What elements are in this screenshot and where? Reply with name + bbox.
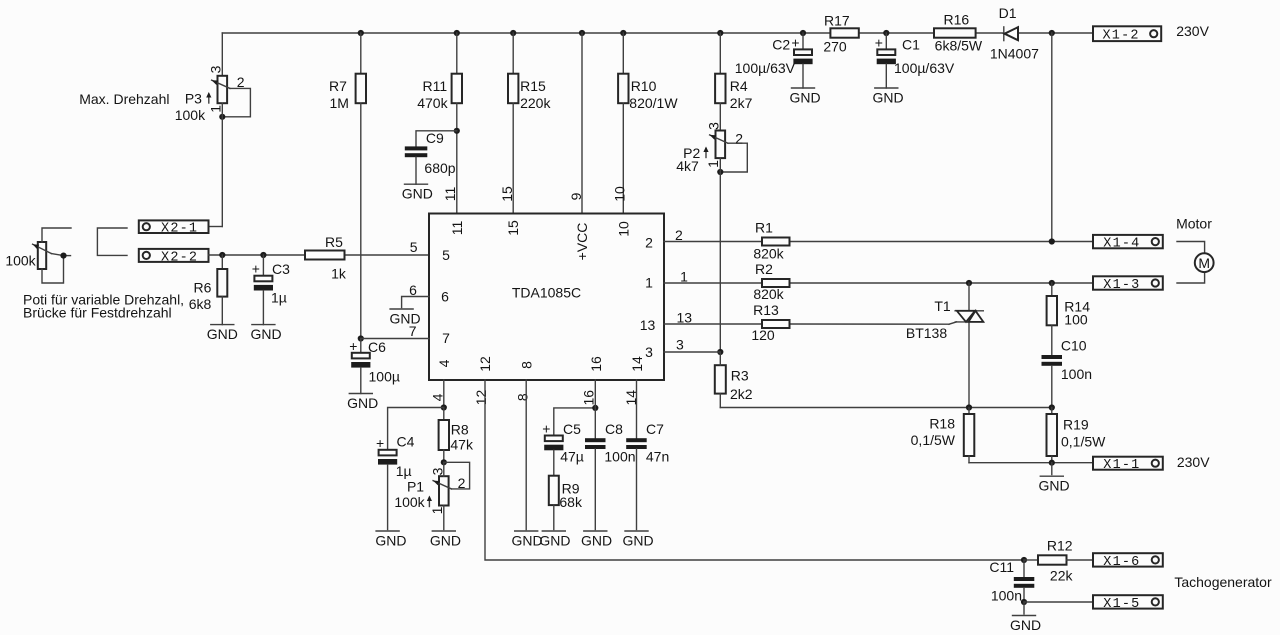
svg-text:100n: 100n [1061,366,1092,382]
svg-text:GND: GND [250,326,281,342]
value 100u/63V (C1) [894,60,955,76]
value 820k (R1) [753,246,784,262]
label P3 pin 2 [237,74,245,90]
value 680p (C9) [424,160,455,176]
value 100k (external poti) [5,253,36,269]
svg-text:TDA1085C: TDA1085C [512,285,581,301]
svg-text:Motor: Motor [1176,216,1212,232]
svg-text:M: M [1198,255,1210,271]
label Motor [1176,216,1212,232]
svg-text:R11: R11 [422,78,447,94]
value 6k8/5W (R16) [935,38,983,54]
resistor R11 [452,33,462,214]
resistor R8 [439,408,449,463]
svg-text:GND: GND [1038,478,1069,494]
capacitor C6 [349,338,370,394]
svg-text:13: 13 [677,309,693,325]
svg-text:X1-3: X1-3 [1103,278,1140,293]
pin 7 label outside [409,323,417,339]
value 47n (C7) [646,449,669,465]
svg-text:R17: R17 [824,13,850,29]
node P3 wiper junction [219,114,225,120]
pin 1 label outside [680,269,688,285]
pin 5 label inside [442,247,450,263]
value BT138 (T1) [906,325,947,341]
svg-text:C6: C6 [368,339,386,355]
value 100k (P3) [175,107,206,123]
svg-text:1µ: 1µ [396,463,412,479]
pin 13 label outside [677,309,693,325]
svg-text:+: + [791,34,799,50]
wire external pot top terminal [42,228,71,242]
svg-text:+: + [376,435,384,451]
svg-text:470k: 470k [417,95,448,111]
value 120 (R13) [751,327,775,343]
svg-text:100k: 100k [5,253,36,269]
svg-text:3: 3 [706,122,722,130]
svg-text:16: 16 [588,356,604,372]
label R2 [755,261,773,277]
label Max. Drehzahl [79,91,169,107]
value 47u (C5) [560,449,584,465]
svg-text:11: 11 [449,221,465,236]
value 220k (R15) [520,95,551,111]
svg-text:+: + [349,338,357,354]
svg-text:100: 100 [1064,312,1088,328]
value 22k (R12) [1050,568,1074,584]
pin 4 label outside [429,393,445,401]
svg-text:Max. Drehzahl: Max. Drehzahl [79,91,169,107]
value 2k2 (R3) [730,386,753,402]
value 68k (R9) [559,494,583,510]
svg-text:12: 12 [477,356,493,372]
op-amp U1 TDA1085C IC body [429,214,664,381]
pin 2 label outside [675,227,683,243]
svg-text:2: 2 [237,74,245,90]
resistor R6 [217,255,227,325]
wire X2-2 to R5 and pin 5 [209,252,430,258]
label R3 [731,368,749,384]
svg-text:P1: P1 [407,479,424,495]
label R12 [1047,537,1073,553]
value 2k7 (R4) [730,95,753,111]
svg-text:R3: R3 [731,368,749,384]
value 1u (C3) [271,290,287,306]
label P1 [407,479,424,495]
svg-text:R19: R19 [1063,417,1089,433]
label R8 [451,422,469,438]
label P3 [185,91,202,107]
wire top supply bus [222,30,1093,36]
ground C6 [347,394,378,412]
pin 7 label inside [442,330,450,346]
svg-text:D1: D1 [999,5,1017,21]
capacitor C9 [405,131,457,184]
wire pin 1 row [664,280,1093,286]
value 1k (R5) [331,265,347,281]
svg-text:+: + [252,261,260,277]
resistor R3 [715,352,726,408]
svg-text:Tachogenerator: Tachogenerator [1174,574,1272,590]
svg-text:68k: 68k [559,494,583,510]
pin 3 label outside [676,337,684,353]
label R1 [755,220,773,236]
wire pin 12 to tachogenerator [485,380,1024,560]
value 0,1/5W (R18) [911,432,956,448]
wire pin 16 junction to C5 [554,405,599,436]
value 1N4007 (D1) [990,45,1039,61]
svg-text:13: 13 [640,317,656,333]
svg-text:100k: 100k [394,494,425,510]
label R7 [329,78,347,94]
svg-text:C3: C3 [272,261,290,277]
svg-text:R10: R10 [631,78,657,94]
svg-text:100n: 100n [604,449,635,465]
svg-text:C1: C1 [902,37,920,53]
node external pot wiper [60,253,66,259]
capacitor C1 [875,33,896,88]
svg-text:16: 16 [581,390,597,406]
label P1 pin 1 [429,506,445,514]
label R16 [943,12,969,28]
resistor R19 [1047,408,1058,463]
capacitor C10 [1042,355,1063,408]
label P3 pin 3 [208,65,224,73]
ground C7 [623,531,654,549]
resistor R10 [618,33,628,214]
svg-text:12: 12 [473,390,489,406]
label C1 [902,37,920,53]
svg-text:R5: R5 [325,234,343,250]
wire pin 8 to ground [525,380,527,530]
resistor R18 [964,408,975,463]
ground C8 [581,531,612,549]
connector X1-4 [1093,235,1163,252]
label C2 [772,37,790,53]
svg-text:X2-2: X2-2 [161,250,198,265]
svg-text:C7: C7 [646,421,664,437]
pin 15 label outside [499,186,515,202]
label C9 [426,130,444,146]
node pin7 junction [358,335,364,341]
resistor R12 [1024,555,1093,564]
svg-text:1: 1 [429,506,445,514]
svg-text:1: 1 [645,275,653,291]
svg-text:+VCC: +VCC [574,223,590,261]
svg-text:0,1/5W: 0,1/5W [911,432,956,448]
svg-text:0,1/5W: 0,1/5W [1061,434,1106,450]
connector X1-6 [1093,553,1163,570]
svg-text:C11: C11 [989,559,1014,575]
svg-text:1: 1 [705,160,721,168]
svg-text:8: 8 [519,361,535,369]
svg-text:2: 2 [675,227,683,243]
label C11 [989,559,1014,575]
svg-text:R8: R8 [451,422,469,438]
svg-text:R15: R15 [520,78,546,94]
svg-text:14: 14 [629,356,645,372]
capacitor C7 [626,438,647,529]
svg-text:4: 4 [436,359,452,367]
label T1 [934,298,951,314]
potentiometer P2 [703,131,747,173]
svg-text:47µ: 47µ [560,449,584,465]
svg-text:R2: R2 [755,261,773,277]
wire bus to P3 [221,33,223,76]
triac T1 BT138 [955,283,983,408]
svg-text:230V: 230V [1176,23,1209,39]
svg-text:100µ/63V: 100µ/63V [735,60,796,76]
svg-text:2k2: 2k2 [730,386,753,402]
node pin 3 junction [717,349,723,355]
svg-text:GND: GND [872,90,903,106]
svg-text:820k: 820k [753,286,784,302]
svg-text:X1-5: X1-5 [1103,597,1140,612]
wire pin 13 row to triac gate [664,322,957,324]
pin 9 label outside [568,192,584,200]
label R13 [753,302,779,318]
svg-text:10: 10 [615,221,631,237]
capacitor C8 [585,438,606,529]
svg-text:3: 3 [676,337,684,353]
label P1 pin 3 [430,467,446,475]
connector X1-1 [1093,457,1163,474]
wire pin 14 to C7 [636,380,638,438]
value 100k (P1) [394,494,425,510]
svg-text:C10: C10 [1061,337,1087,353]
svg-text:GND: GND [623,533,654,549]
value 100u/63V (C2) [735,60,796,76]
svg-text:100µ: 100µ [369,369,400,385]
svg-text:6: 6 [409,282,417,298]
ground pin 8 [511,531,542,549]
potentiometer external 100k [33,242,64,269]
label C5 [563,421,581,437]
svg-text:22k: 22k [1050,568,1074,584]
pin 15 label inside [505,220,521,236]
ground C1 [872,88,903,106]
svg-text:BT138: BT138 [906,325,947,341]
svg-text:C5: C5 [563,421,581,437]
node X1-5 junction [1021,599,1027,605]
value 820/1W (R10) [629,95,678,111]
value 4k7 (P2) [676,158,699,174]
svg-text:GND: GND [511,533,542,549]
svg-text:R18: R18 [929,416,955,432]
label R19 [1063,417,1089,433]
wire +VCC pin 9 [581,33,583,214]
ground C5 R9 [539,531,570,549]
pin 12 label outside [473,390,489,406]
value 0,1/5W (R19) [1061,434,1106,450]
value 100u (C6) [369,369,400,385]
label C6 [368,339,386,355]
node C11 junction [1021,557,1027,563]
wire pin 2 row [664,238,1093,244]
wire X1-1 row [969,460,1093,466]
label C7 [646,421,664,437]
label R17 [824,13,850,29]
label R18 [929,416,955,432]
svg-text:5: 5 [442,247,450,263]
label R4 [730,78,748,94]
svg-text:GND: GND [430,533,461,549]
node C9 junction pin 11 [454,128,460,134]
wire pin 16 to C8 [594,380,596,438]
svg-text:100µ/63V: 100µ/63V [894,60,955,76]
svg-text:C4: C4 [397,434,415,450]
svg-text:X1-6: X1-6 [1103,555,1140,570]
capacitor C2 [791,33,812,88]
svg-text:680p: 680p [424,160,455,176]
svg-text:1N4007: 1N4007 [990,45,1039,61]
svg-text:R6: R6 [194,280,212,296]
svg-text:X1-2: X1-2 [1102,29,1139,44]
ground C11 [1010,602,1041,633]
value 270 (R17) [823,39,847,55]
wire pin 7 [361,338,429,340]
svg-text:Brücke für Festdrehzahl: Brücke für Festdrehzahl [23,305,172,321]
value 470k (R11) [417,95,448,111]
svg-text:X1-4: X1-4 [1103,237,1140,252]
connector X2-2 [139,249,209,266]
wire X1-4 to motor [1177,242,1205,254]
ground C2 [789,88,820,106]
value 820k (R2) [753,286,784,302]
ground R6 [207,325,238,343]
label R15 [520,78,546,94]
wire bus to X1-4 row [1051,33,1053,242]
label C4 [397,434,415,450]
label TDA1085C [512,285,581,301]
potentiometer P1 [427,462,470,529]
pin 10 label outside [611,186,627,202]
svg-text:R7: R7 [329,78,347,94]
resistor R13 [762,320,790,328]
svg-text:GND: GND [347,395,378,411]
pin 16 label inside [588,356,604,372]
net 230V bottom [1177,454,1210,470]
note Bruecke für Festdrehzahl [23,305,172,321]
resistor R15 [508,33,518,214]
svg-text:9: 9 [568,192,584,200]
label R11 [422,78,447,94]
label P3 pin 1 [208,105,224,113]
net 230V top [1176,23,1209,39]
value 47k (R8) [450,437,474,453]
svg-text:230V: 230V [1177,454,1210,470]
wire P2 to pin 3 node [719,158,721,352]
value 100n (C10) [1061,366,1092,382]
pin 3 label inside [645,344,653,360]
pin 11 label inside [449,221,465,236]
pin 1 label inside [645,275,653,291]
label Tachogenerator [1174,574,1272,590]
value 100n (C11) [991,588,1022,604]
pin 13 label inside [640,317,656,333]
svg-text:GND: GND [375,533,406,549]
pin 2 label inside [645,235,653,251]
svg-text:6: 6 [441,289,449,305]
value 6k8 (R6) [189,296,212,312]
resistor R14 [1047,283,1057,355]
svg-text:7: 7 [442,330,450,346]
svg-text:5: 5 [410,239,418,255]
resistor R7 [356,33,366,339]
svg-text:3: 3 [208,65,224,73]
ground X1-1 row [1038,463,1069,494]
note Poti für variable Drehzahl [23,292,184,308]
svg-text:100n: 100n [991,588,1022,604]
svg-text:R13: R13 [753,302,779,318]
value 100 (R14) [1064,312,1088,328]
svg-text:+: + [875,34,883,50]
label R10 [631,78,657,94]
svg-text:R1: R1 [755,220,773,236]
svg-text:4: 4 [429,393,445,401]
svg-text:2: 2 [735,130,743,146]
wire pin 6 to ground [402,297,429,308]
wire bracket to X2 connectors [97,228,127,255]
pin 8 label outside [515,393,531,401]
svg-text:8: 8 [515,393,531,401]
value 100n (C8) [604,449,635,465]
resistor R9 [549,476,559,530]
svg-text:1M: 1M [329,95,348,111]
svg-text:GND: GND [389,311,420,327]
svg-text:GND: GND [581,533,612,549]
potentiometer P3 [206,76,250,117]
svg-text:1: 1 [680,269,688,285]
svg-text:100k: 100k [175,107,206,123]
capacitor C3 [252,255,273,325]
svg-text:3: 3 [645,344,653,360]
svg-text:820k: 820k [753,246,784,262]
connector X2-1 [139,220,209,236]
label D1 [999,5,1017,21]
motor M1 symbol [1195,253,1214,272]
resistor R2 [762,279,790,287]
pin 10 label inside [615,221,631,237]
svg-text:R12: R12 [1047,537,1073,553]
svg-text:220k: 220k [520,95,551,111]
pin 16 label outside [581,390,597,406]
svg-text:6k8/5W: 6k8/5W [935,38,983,54]
node P2 wiper junction [717,169,723,175]
pin 11 label outside [442,187,458,202]
label C10 [1061,337,1087,353]
connector X1-3 [1093,276,1163,293]
svg-text:1µ: 1µ [271,290,287,306]
wire P3 to X2-1 [209,103,223,226]
wire pin 3 to junction [664,351,720,353]
capacitor C4 [376,408,444,530]
pin 14 label outside [623,390,639,406]
label P2 [683,145,700,161]
resistor R5 [305,251,345,260]
svg-text:R4: R4 [730,78,748,94]
svg-text:47n: 47n [646,449,669,465]
value 1u (C4) [396,463,412,479]
label R14 [1064,298,1090,314]
pin 9 label +VCC inside [574,223,590,261]
svg-text:47k: 47k [450,437,474,453]
wire pin 4 to junction [441,380,447,411]
capacitor C11 [1014,560,1035,602]
svg-text:3: 3 [430,467,446,475]
pin 8 label inside [519,361,535,369]
svg-text:GND: GND [207,326,238,342]
